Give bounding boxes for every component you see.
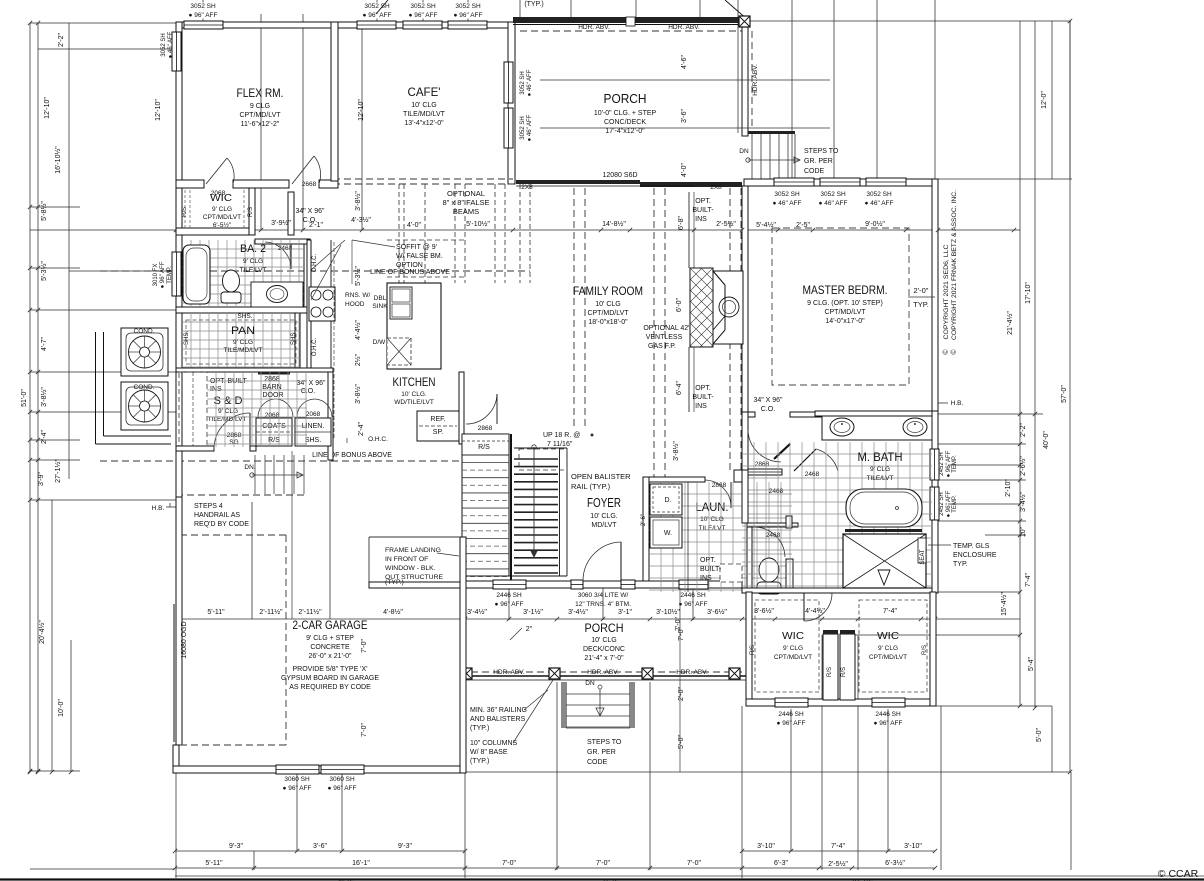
svg-text:● 96" AFF: ● 96" AFF [189,12,218,19]
pantry walls [295,313,300,368]
svg-text:3'-8½": 3'-8½" [354,191,362,211]
svg-text:PORCH: PORCH [604,91,647,106]
porch right wall [742,24,748,136]
svg-text:3052 SH: 3052 SH [820,191,846,198]
svg-text:7'-0": 7'-0" [502,860,516,867]
svg-text:3052 SH: 3052 SH [410,3,436,10]
svg-text:IN FRONT OF: IN FRONT OF [385,556,428,563]
svg-text:13'-4"x12'-0": 13'-4"x12'-0" [404,120,444,127]
svg-text:CPT/MD/LVT: CPT/MD/LVT [239,112,281,119]
svg-text:7'-4": 7'-4" [831,843,845,850]
steps top right [748,131,795,134]
windows 2452 SH mbath right x2 [930,449,939,480]
svg-text:16080 OGD: 16080 OGD [181,621,188,658]
ba2 vanity [251,282,303,307]
svg-text:C.O.: C.O. [303,217,317,224]
stair center wall [510,434,512,581]
svg-text:HDR. ABV.: HDR. ABV. [676,669,708,676]
svg-text:R/S: R/S [478,444,490,451]
wing west wall [746,592,752,706]
svg-text:TEMP.: TEMP. [952,495,958,513]
washer dryer [650,484,682,515]
HB marker right [938,402,948,404]
svg-text:2'-4": 2'-4" [41,430,48,444]
svg-text:DECK/CONC: DECK/CONC [583,646,625,653]
mbath tile [742,442,932,592]
svg-text:26'-0" x 21'-0": 26'-0" x 21'-0" [308,653,352,660]
master suite left wall / family room east wall [742,186,748,412]
svg-text:DN: DN [585,680,595,687]
svg-text:INS: INS [695,403,707,410]
svg-text:WD/TILE/LVT: WD/TILE/LVT [394,399,434,406]
hall walls master suite [742,412,748,470]
svg-text:INS: INS [695,216,707,223]
svg-text:3'-8½": 3'-8½" [40,387,48,407]
svg-text:● 96" AFF: ● 96" AFF [874,720,903,727]
svg-text:5'-3½": 5'-3½" [354,266,362,286]
barn door [258,372,290,375]
svg-text:11'-6"x12'-2": 11'-6"x12'-2" [241,121,280,128]
stair right flight [514,458,558,460]
svg-text:3'-10": 3'-10" [904,843,922,850]
hall west wall [288,192,294,235]
svg-text:9' CLG: 9' CLG [233,339,253,346]
laundry top wall [649,477,705,482]
svg-text:2068: 2068 [306,411,321,418]
svg-text:INS: INS [700,575,712,582]
svg-text:4'-8½": 4'-8½" [383,608,403,616]
svg-text:2'-0": 2'-0" [678,687,685,701]
wing east wall [930,592,936,706]
svg-text:TEMP.: TEMP. [167,266,173,284]
wic shelving dashed [184,190,186,228]
svg-text:COPYRIGHT 2021 FRNAK BETZ & AS: COPYRIGHT 2021 FRNAK BETZ & ASSOC. INC. [952,190,958,340]
svg-text:STEPS TO: STEPS TO [804,148,839,155]
svg-text:● 46" AFF: ● 46" AFF [819,200,848,207]
svg-text:40'-0": 40'-0" [1043,431,1050,449]
svg-text:9 CLG. (OPT. 10' STEP): 9 CLG. (OPT. 10' STEP) [807,300,883,307]
svg-text:12'-10": 12'-10" [155,99,162,121]
svg-text:TILE/LVT: TILE/LVT [699,525,726,532]
top exterior wall flex/cafe [176,22,513,28]
svg-text:12" TRNS. 4" BTM.: 12" TRNS. 4" BTM. [575,601,631,608]
pantry tile [182,313,300,368]
svg-text:9' CLG: 9' CLG [870,466,890,473]
svg-text:OPT.: OPT. [700,557,716,564]
svg-text:2868: 2868 [712,482,727,489]
svg-text:10": 10" [1020,526,1027,537]
svg-text:D.: D. [665,497,672,504]
svg-text:S & D: S & D [214,395,243,407]
svg-text:5'-11": 5'-11" [207,609,225,616]
svg-text:7'-4": 7'-4" [883,608,897,615]
svg-text:12'-10": 12'-10" [44,97,51,119]
svg-text:M. BATH: M. BATH [858,450,903,464]
svg-text:2'-0": 2'-0" [914,286,929,295]
dimension extension lines left [29,23,31,772]
svg-text:● 96" AFF: ● 96" AFF [409,12,438,19]
svg-text:CONC/DECK: CONC/DECK [604,119,646,126]
svg-text:10' CLG: 10' CLG [700,516,724,523]
mbath tub [846,489,922,527]
svg-text:CPT/MD/LVT: CPT/MD/LVT [824,309,866,316]
svg-text:R/S: R/S [182,207,188,217]
svg-text:TYP.: TYP. [913,300,929,309]
family east builtins [688,192,690,268]
svg-text:7'-0": 7'-0" [361,639,368,653]
shower [843,534,926,588]
svg-text:20'-4½": 20'-4½" [38,620,46,644]
svg-text:2068: 2068 [265,412,280,419]
svg-text:5'-10½": 5'-10½" [466,220,490,228]
svg-text:OPEN BALISTER: OPEN BALISTER [571,472,631,481]
svg-text:51'-0": 51'-0" [21,389,28,407]
svg-text:ENCLOSURE: ENCLOSURE [953,552,997,559]
svg-text:3'-4½": 3'-4½" [467,608,487,616]
svg-text:SEAT: SEAT [920,549,926,565]
svg-text:4'-3½": 4'-3½" [351,216,371,224]
svg-text:KITCHEN: KITCHEN [393,375,436,389]
porch interior dim lines [540,79,830,81]
svg-text:● 46" AFF: ● 46" AFF [168,31,174,58]
svg-text:FLEX RM.: FLEX RM. [237,86,284,100]
svg-text:3052 SH: 3052 SH [190,3,216,10]
svg-text:3052 SH: 3052 SH [520,71,526,94]
mbath window dim arrows [948,464,1020,466]
svg-text:4'-0": 4'-0" [681,163,688,177]
svg-text:3'-6½": 3'-6½" [754,607,774,615]
svg-text:CODE: CODE [587,759,608,766]
cafe/kitchen dashed divider [333,178,513,180]
svg-text:3'-4½": 3'-4½" [568,608,588,616]
door 2468 ba2 [265,242,291,269]
svg-text:LINEN.: LINEN. [302,423,325,430]
svg-text:RAIL (TYP.): RAIL (TYP.) [571,482,611,491]
svg-text:16'-10½": 16'-10½" [54,146,62,174]
svg-text:AND BALISTERS: AND BALISTERS [470,716,526,723]
svg-text:TILE/LVT: TILE/LVT [240,267,267,274]
svg-text:5'-0": 5'-0" [1036,728,1043,742]
dimension extension lines top/right [745,20,1071,22]
svg-text:5'-8½": 5'-8½" [40,201,48,221]
wing front wall [746,699,936,706]
svg-text:18'-0"x18'-0": 18'-0"x18'-0" [588,319,628,326]
bottom dimension rows [175,850,465,852]
garage bonus dashed [285,535,287,745]
svg-text:2'-11½": 2'-11½" [298,608,322,616]
svg-text:5'-3½": 5'-3½" [40,261,48,281]
svg-text:SHS.: SHS. [291,331,297,345]
svg-text:PROVIDE 5/8" TYPE 'X': PROVIDE 5/8" TYPE 'X' [292,666,367,673]
svg-text:10' CLG.: 10' CLG. [590,513,617,520]
svg-text:OPTIONAL 42": OPTIONAL 42" [643,325,691,332]
svg-text:BEAMS: BEAMS [453,207,479,216]
svg-text:10' CLG.: 10' CLG. [401,391,427,398]
svg-text:● 96" AFF: ● 96" AFF [777,720,806,727]
svg-text:6'-5½": 6'-5½" [213,221,232,229]
kitchen island [387,283,441,369]
svg-text:3'-9": 3'-9" [38,472,45,486]
svg-text:H.B.: H.B. [152,505,165,512]
svg-text:TILE/LVT: TILE/LVT [867,475,894,482]
svg-text:WIC: WIC [782,630,804,642]
svg-text:C.O.: C.O. [301,388,315,395]
svg-text:R/S: R/S [922,645,928,655]
HB left [166,506,176,508]
svg-text:3'-4½": 3'-4½" [1019,492,1027,512]
front dim row y619 [176,618,1020,620]
door 2868 SG [249,413,251,449]
master right wall [932,179,938,415]
svg-text:6'-3½": 6'-3½" [885,859,905,867]
svg-text:SINK: SINK [372,303,388,310]
svg-text:2½": 2½" [354,353,362,366]
svg-text:12'-10": 12'-10" [358,99,365,121]
up arrow [533,447,535,558]
porch bottom wall [516,180,640,184]
svg-text:OPTION: OPTION [396,262,423,269]
front landing [368,537,370,582]
svg-text:C.O.: C.O. [761,406,775,413]
svg-text:R/S: R/S [841,667,847,677]
svg-text:9 CLG: 9 CLG [250,103,270,110]
svg-text:OPT.: OPT. [695,385,711,392]
svg-text:● 96" AFF: ● 96" AFF [454,12,483,19]
porch front rail [460,671,746,673]
svg-text:DN.: DN. [244,464,255,471]
svg-text:REQ'D BY CODE: REQ'D BY CODE [194,521,249,528]
svg-text:3010 FX: 3010 FX [153,264,159,287]
svg-text:RNS. W/: RNS. W/ [345,292,370,299]
svg-text:TEMP.: TEMP. [952,455,958,473]
svg-text:10' CLG: 10' CLG [595,301,620,308]
svg-text:OPT.: OPT. [695,198,711,205]
svg-text:FOYER: FOYER [587,496,621,510]
svg-text:WIC: WIC [877,630,899,642]
range [309,287,335,321]
svg-text:3'-6½": 3'-6½" [707,608,727,616]
svg-text:HDR. ABV.: HDR. ABV. [578,24,610,31]
svg-text:5'-4": 5'-4" [1028,657,1035,671]
roof diagonal top right [725,0,748,20]
svg-text:10'-0" CLG. + STEP: 10'-0" CLG. + STEP [594,110,657,117]
garage walls [176,497,182,745]
laundry west wall [643,477,649,581]
window 2446 SH front [493,580,526,589]
svg-text:BUILT-: BUILT- [700,566,722,573]
svg-text:12'-0": 12'-0" [1041,91,1048,109]
svg-text:4'-0": 4'-0" [407,222,421,229]
svg-text:10'-0": 10'-0" [58,699,65,717]
svg-text:● 96" AFF: ● 96" AFF [679,601,708,608]
laundry tile [649,482,792,592]
svg-text:GR. PER: GR. PER [587,749,616,756]
master bedroom dashed ceiling offset [772,228,909,385]
fireplace [690,268,713,347]
svg-text:7'-0": 7'-0" [596,860,610,867]
svg-text:9' CLG: 9' CLG [218,408,238,415]
family room bonus dashed lines [573,188,575,428]
svg-text:(TYP.): (TYP.) [470,725,489,732]
svg-text:©: © [942,349,950,355]
svg-text:MASTER BEDRM.: MASTER BEDRM. [803,283,888,297]
svg-text:BUILT-: BUILT- [692,207,714,214]
svg-text:2'-11½": 2'-11½" [259,608,283,616]
svg-text:CPT/MD/LVT: CPT/MD/LVT [869,654,907,661]
windows 2446 wing front [775,698,808,707]
svg-text:STEPS 4: STEPS 4 [194,503,223,510]
svg-text:5'-11": 5'-11" [205,860,223,867]
front wall main [460,581,742,588]
svg-text:HDR. ABV.: HDR. ABV. [493,669,525,676]
svg-text:CAFE': CAFE' [408,85,441,99]
svg-text:21'-4" x 7'-0": 21'-4" x 7'-0" [584,655,624,662]
wc toilet [759,558,779,582]
vertical extension lines interior [260,14,262,230]
sinks [830,418,854,436]
svg-text:COND.: COND. [134,384,155,391]
svg-text:W/ 8" BASE: W/ 8" BASE [470,749,508,756]
range leader lines [311,240,345,270]
svg-text:10' CLG: 10' CLG [411,102,436,109]
svg-text:2'-5": 2'-5" [796,222,810,229]
svg-text:(TYP.): (TYP.) [470,758,489,765]
door 2868 hall-master [748,430,781,462]
svg-text:14'-8½": 14'-8½" [602,220,626,228]
svg-text:9' CLG + STEP: 9' CLG + STEP [306,635,354,642]
svg-text:FRAME LANDING: FRAME LANDING [385,547,441,554]
svg-text:2'-5½": 2'-5½" [716,220,736,228]
svg-text:GYPSUM BOARD IN GARAGE: GYPSUM BOARD IN GARAGE [281,675,379,682]
main stair up [462,434,509,576]
svg-text:COATS: COATS [262,423,286,430]
svg-text:2446 SH: 2446 SH [496,592,522,599]
svg-text:AS REQUIRED BY CODE: AS REQUIRED BY CODE [289,684,371,691]
svg-text:O.H.C.: O.H.C. [368,436,388,443]
svg-text:14'-0"x17'-0": 14'-0"x17'-0" [825,318,865,325]
svg-text:HANDRAIL AS: HANDRAIL AS [194,512,240,519]
svg-text:OPTIONAL: OPTIONAL [447,189,485,198]
svg-text:D/W: D/W [373,339,387,346]
svg-text:WINDOW - BLK.: WINDOW - BLK. [385,565,436,572]
svg-text:MD/LVT: MD/LVT [591,522,617,529]
svg-text:● 96" AFF: ● 96" AFF [495,601,524,608]
svg-text:2'-2": 2'-2" [1020,423,1027,437]
door 2068 flex-wic [206,158,227,184]
svg-text:LAUN.: LAUN. [696,502,729,514]
svg-text:2X8: 2X8 [710,184,722,191]
svg-text:6'-0": 6'-0" [676,298,683,312]
svg-text:2468: 2468 [805,471,820,478]
pantry shelves dashed [186,320,296,364]
svg-text:10' CLG: 10' CLG [591,637,616,644]
svg-text:VENTLESS: VENTLESS [646,334,683,341]
svg-text:DBL: DBL [374,295,387,302]
wic walls [176,228,255,235]
svg-text:3'-1": 3'-1" [618,609,632,616]
svg-text:BA. 2: BA. 2 [240,243,266,255]
svg-text:5'-0": 5'-0" [678,735,685,749]
svg-text:SP.: SP. [433,429,443,436]
svg-text:WIC: WIC [210,192,232,204]
svg-text:PORCH: PORCH [585,621,624,635]
svg-text:3'-8½": 3'-8½" [672,441,680,461]
ba2 walls [255,239,310,244]
svg-text:SOFFIT @ 9': SOFFIT @ 9' [396,244,437,251]
tile s&d [207,372,307,447]
svg-text:4'-4½": 4'-4½" [354,320,362,340]
mbath entry walls [742,470,748,523]
window 3052 SH flex top [184,21,223,29]
svg-text:2'-4": 2'-4" [358,422,365,436]
svg-text:W/ FALSE BM.: W/ FALSE BM. [396,253,443,260]
door 2668 flex-hall [292,156,314,184]
door 2868 upper hall [744,469,782,475]
svg-text:(TYP.): (TYP.) [524,1,543,8]
svg-text:10" COLUMNS: 10" COLUMNS [470,740,518,747]
wall flex/cafe [331,22,338,181]
flex bottom wall [176,180,204,188]
windows 3052 SH master top x3 [774,178,814,186]
svg-text:3'-10½": 3'-10½" [656,608,680,616]
dn stairs basement [254,455,256,494]
svg-text:7 11/16": 7 11/16" [547,441,573,448]
front door 3060 [571,580,583,589]
hall-wic door 2468 [792,523,798,527]
svg-text:W.: W. [664,530,672,537]
svg-text:SHS.: SHS. [184,331,190,345]
svg-text:2446 SH: 2446 SH [875,711,901,718]
condenser pads [95,332,97,444]
svg-text:12080 S6D: 12080 S6D [602,172,637,179]
svg-text:2'-2": 2'-2" [58,33,65,47]
svg-text:3'-9½": 3'-9½" [271,219,291,227]
left exterior wall [176,22,182,592]
svg-text:TILE/MD/LVT: TILE/MD/LVT [224,347,263,354]
svg-text:REF.: REF. [430,416,445,423]
svg-text:3052 SH: 3052 SH [520,116,526,139]
svg-text:CPT/MD/LVT: CPT/MD/LVT [774,654,812,661]
svg-text:● 46" AFF: ● 46" AFF [865,200,894,207]
svg-text:9' CLG: 9' CLG [878,645,898,652]
svg-text:CODE: CODE [804,168,825,175]
svg-text:3052 SH: 3052 SH [774,191,800,198]
svg-text:H.B.: H.B. [951,400,964,407]
svg-text:● 96" AFF: ● 96" AFF [328,785,357,792]
svg-text:21'-4½": 21'-4½" [1006,311,1014,335]
cafe right wall [508,22,515,184]
svg-text:R/S: R/S [248,207,254,217]
porch top wall [513,17,748,23]
svg-text:8" x 8" FALSE: 8" x 8" FALSE [442,198,489,207]
svg-text:● 46" AFF: ● 46" AFF [527,69,533,96]
svg-text:5'-4½": 5'-4½" [756,221,776,229]
svg-text:9'-3": 9'-3" [398,843,412,850]
svg-text:3'-6": 3'-6" [313,843,327,850]
svg-text:2452 SH: 2452 SH [939,452,945,475]
svg-text:HDR. ABV.: HDR. ABV. [587,669,619,676]
svg-text:2452 SH: 2452 SH [939,492,945,515]
porch corner column [739,16,750,27]
porch steps down [561,682,567,728]
svg-text:CPT/MD/LVT: CPT/MD/LVT [203,214,241,221]
svg-text:©: © [950,349,958,355]
svg-text:3052 SH: 3052 SH [364,3,390,10]
coats closet [256,418,292,446]
svg-text:3'-6": 3'-6" [681,109,688,123]
svg-text:3060 3/4 LITE W/: 3060 3/4 LITE W/ [578,592,629,599]
svg-text:CONCRETE: CONCRETE [310,644,350,651]
